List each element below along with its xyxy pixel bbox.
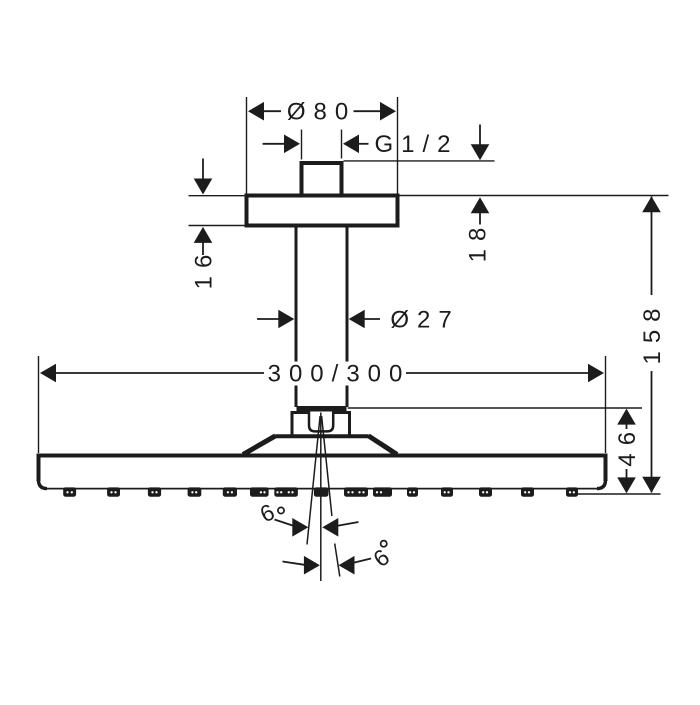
- dimension Ø80 extension line left: [246, 97, 248, 194]
- svg-text:46: 46: [614, 424, 641, 467]
- nut housing: [292, 413, 350, 437]
- head bottom-right corner: [597, 480, 606, 489]
- dimension G1/2 left arrow: [263, 135, 300, 154]
- dimension Ø27 left arrow: [257, 310, 294, 329]
- pipe end black bar: [297, 406, 347, 412]
- dimension Ø80 left arrow: [248, 102, 281, 121]
- svg-text:18: 18: [464, 220, 491, 263]
- dimension Ø80 extension line right: [397, 97, 399, 194]
- angle 6 lower right arrow: [339, 556, 372, 575]
- cone left slant: [243, 436, 276, 455]
- dimension 46 bottom reference line: [577, 493, 661, 495]
- head left edge: [37, 454, 41, 482]
- nozzle dots: [66, 491, 575, 493]
- angle 6 lower left arrow: [283, 556, 320, 575]
- spray right line lower: [335, 544, 340, 577]
- angle 6 upper left arrow: [275, 518, 309, 537]
- dimension 158 up arrow: [642, 196, 661, 212]
- label 6deg lower: [368, 544, 394, 572]
- dimension 300/300 left arrow: [40, 364, 264, 383]
- dimension 16 top reference line: [189, 195, 247, 197]
- angle 6 upper right arrow: [322, 518, 358, 537]
- svg-text:300/300: 300/300: [268, 360, 411, 387]
- head bottom-left corner: [39, 480, 48, 489]
- dimension 158 line upper: [651, 197, 653, 296]
- head top line: [37, 454, 608, 458]
- dimension 16 down arrow: [194, 159, 213, 195]
- svg-text:Ø27: Ø27: [390, 306, 459, 333]
- svg-text:Ø80: Ø80: [287, 99, 356, 126]
- nozzle row: [63, 487, 578, 496]
- dimension 16 up arrow: [194, 227, 213, 255]
- dimension 16 bottom reference line: [189, 225, 247, 227]
- svg-text:16: 16: [190, 247, 217, 290]
- head right edge: [604, 454, 608, 482]
- ceiling flange plate: [247, 196, 398, 226]
- cone right slant: [368, 436, 397, 455]
- cone top plate: [275, 434, 369, 438]
- ceiling reference line: [400, 195, 669, 197]
- spray center line: [320, 413, 322, 582]
- svg-text:G1/2: G1/2: [374, 131, 458, 158]
- dimension 158 down arrow: [642, 477, 661, 493]
- dimension 18 up arrow: [471, 197, 490, 224]
- label 300/300 backing: [266, 362, 402, 386]
- pipe left wall: [295, 226, 298, 407]
- shower head body fill: [37, 454, 608, 490]
- dimension G1/2 extension line left: [301, 130, 303, 160]
- head bottom line: [39, 482, 606, 489]
- dimension 46 up arrow: [617, 409, 636, 429]
- dimension Ø27 right arrow: [349, 310, 380, 329]
- dimension G1/2 right arrow: [343, 135, 369, 154]
- dimension 18 down arrow: [471, 125, 490, 161]
- connector stub G1/2: [302, 163, 342, 197]
- dimension 300/300 extension line left: [38, 356, 40, 453]
- dimension 18 top reference line: [344, 160, 495, 162]
- dimension 46 top reference line: [348, 407, 642, 409]
- dimension Ø80 right arrow: [354, 102, 397, 121]
- dimension G1/2 extension line right: [341, 130, 343, 159]
- dimension 300/300 right arrow: [406, 364, 604, 383]
- spray left line: [307, 416, 320, 545]
- spray right line upper: [322, 416, 332, 516]
- label 6deg upper: [256, 498, 279, 527]
- dimension 46 down arrow: [617, 469, 636, 493]
- dimension 158 line lower: [651, 371, 653, 493]
- dimension 300/300 extension line right: [605, 356, 607, 453]
- svg-text:158: 158: [639, 300, 666, 364]
- spray insert: [309, 412, 333, 432]
- pipe right wall: [346, 226, 349, 407]
